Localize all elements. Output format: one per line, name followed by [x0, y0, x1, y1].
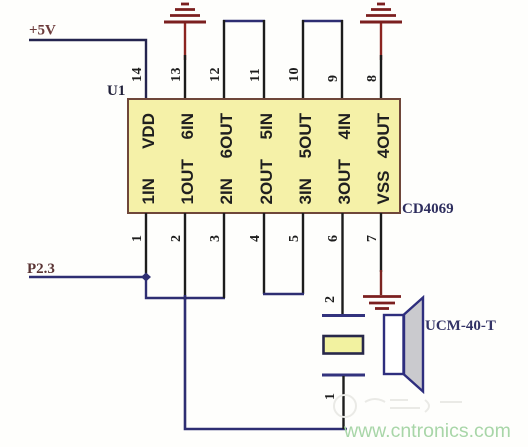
- svg-text:5IN: 5IN: [257, 113, 276, 139]
- speaker body rectangle: [384, 315, 404, 374]
- transducer bottom wire: [342, 376, 344, 429]
- pin 1 stub wire: [145, 213, 147, 277]
- pin 6 stub wire to transducer: [341, 213, 343, 315]
- ground GND at pin 7: [363, 297, 401, 309]
- wire pin 10 to pin 9 (top U link): [302, 20, 343, 99]
- svg-text:11: 11: [248, 68, 263, 82]
- svg-text:VSS: VSS: [374, 170, 393, 204]
- pin 7 stub wire to ground: [380, 213, 382, 272]
- svg-text:www.cntronics.com: www.cntronics.com: [343, 420, 511, 442]
- svg-text:14: 14: [130, 67, 145, 82]
- svg-text:2: 2: [323, 296, 338, 304]
- ground GND top at pin 13: [164, 4, 206, 99]
- svg-text:UCM-40-T: UCM-40-T: [425, 318, 496, 334]
- svg-text:P2.3: P2.3: [27, 261, 55, 277]
- svg-text:4: 4: [248, 235, 263, 243]
- svg-text:4OUT: 4OUT: [374, 112, 393, 158]
- svg-text:2OUT: 2OUT: [257, 159, 276, 205]
- pin 2 stub wire: [184, 213, 186, 300]
- svg-text:9: 9: [326, 75, 341, 83]
- svg-text:3OUT: 3OUT: [335, 159, 354, 205]
- svg-text:2: 2: [169, 235, 184, 243]
- junction node at pin 1 / P2.3: [141, 273, 151, 282]
- svg-text:1OUT: 1OUT: [178, 159, 197, 205]
- svg-text:+5V: +5V: [29, 23, 56, 39]
- svg-text:CD4069: CD4069: [402, 201, 454, 217]
- svg-text:3IN: 3IN: [296, 178, 315, 204]
- svg-text:6: 6: [326, 235, 341, 243]
- svg-text:7: 7: [365, 235, 380, 243]
- svg-text:2IN: 2IN: [217, 178, 236, 204]
- wire P2.3 to pin 1: [29, 276, 146, 278]
- wire pin 1 down to link row: [146, 277, 225, 298]
- svg-text:8: 8: [365, 75, 380, 83]
- wire pin 2 long run to transducer bottom: [185, 295, 347, 429]
- transducer bottom plate: [322, 374, 365, 377]
- svg-text:3: 3: [208, 235, 223, 243]
- svg-text:6IN: 6IN: [178, 113, 197, 139]
- ground GND top at pin 8: [360, 4, 402, 99]
- svg-text:1: 1: [130, 235, 145, 243]
- svg-text:4IN: 4IN: [335, 113, 354, 139]
- svg-text:5: 5: [287, 235, 302, 243]
- faint watermark blob: [334, 395, 462, 417]
- wire pin 12 to pin 11 (top U link): [223, 20, 265, 99]
- svg-text:10: 10: [287, 67, 302, 82]
- transducer top plate: [322, 314, 365, 317]
- speaker cone: [404, 298, 423, 392]
- pin 3 stub wire: [223, 213, 225, 298]
- svg-text:6OUT: 6OUT: [217, 112, 236, 158]
- svg-text:12: 12: [208, 67, 223, 82]
- svg-text:VDD: VDD: [139, 113, 158, 149]
- IC U1 CD4069 body: [128, 99, 400, 213]
- wire +5V to pin 14: [29, 40, 146, 99]
- svg-text:5OUT: 5OUT: [296, 112, 315, 158]
- wire pin 4 to pin 5 (bottom U link): [263, 213, 304, 294]
- svg-text:13: 13: [169, 67, 184, 82]
- svg-text:1IN: 1IN: [139, 178, 158, 204]
- transducer crystal body: [324, 336, 364, 354]
- svg-text:U1: U1: [107, 83, 125, 99]
